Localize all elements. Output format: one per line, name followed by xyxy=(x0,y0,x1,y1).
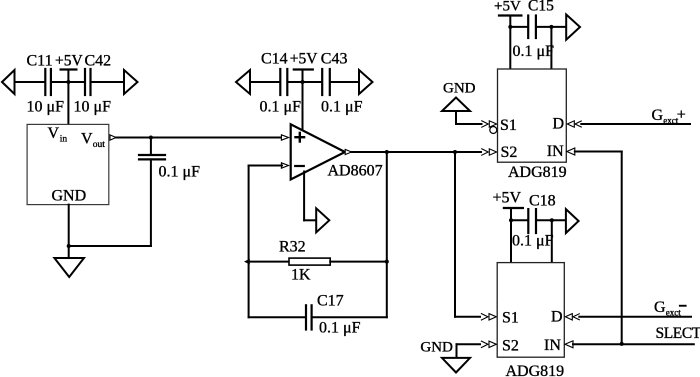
node: +5V mid junction xyxy=(301,80,305,84)
wire xyxy=(15,81,45,83)
connector arrow right of C42 rail xyxy=(124,70,138,94)
wire xyxy=(511,219,527,221)
junction arrow at R32 left xyxy=(244,259,250,265)
svg-text:ADG819: ADG819 xyxy=(508,164,567,181)
wire xyxy=(537,26,566,28)
svg-text:G: G xyxy=(654,299,666,316)
node: R32 right junction xyxy=(385,260,389,264)
svg-text:0.1 μF: 0.1 μF xyxy=(321,99,363,116)
wire xyxy=(510,26,527,28)
svg-text:C43: C43 xyxy=(321,51,348,68)
wire: -input to feedback rail xyxy=(249,165,282,167)
svg-text:out: out xyxy=(93,140,106,150)
svg-text:V: V xyxy=(48,125,60,142)
svg-text:S1: S1 xyxy=(500,117,517,134)
node: Vout junction xyxy=(149,136,153,140)
wire xyxy=(150,161,152,247)
capacitor C11 xyxy=(44,69,46,95)
pin arrow op-amp out xyxy=(345,149,351,154)
svg-text:SLECT: SLECT xyxy=(656,325,700,342)
capacitor C43 xyxy=(321,69,323,95)
wire: Vout to op-amp + input xyxy=(116,137,282,139)
wire xyxy=(150,138,152,154)
svg-text:AD8607: AD8607 xyxy=(328,163,383,180)
pin arrow Vout xyxy=(110,135,116,140)
svg-text:+5V: +5V xyxy=(493,190,522,207)
pin decoration S2 (bottom) xyxy=(481,341,488,347)
regulator block Vin/Vout/GND xyxy=(27,124,109,204)
wire xyxy=(92,81,125,83)
svg-text:C42: C42 xyxy=(85,53,112,70)
wire xyxy=(52,81,84,83)
switch U2 ADG819 (top) xyxy=(498,69,567,162)
svg-text:GND: GND xyxy=(420,339,453,355)
wire: feedback left rail xyxy=(248,166,250,318)
node xyxy=(550,218,554,222)
node: SLECT junction xyxy=(620,342,624,346)
wire: D to Gext- xyxy=(579,316,691,318)
wire: +5V down to Vin xyxy=(67,82,69,124)
connector arrow right of C18 xyxy=(566,209,579,233)
capacitor 0.1uF at Vout xyxy=(139,154,165,156)
wire xyxy=(69,245,151,247)
svg-text:0.1 μF: 0.1 μF xyxy=(159,164,201,181)
pin decoration S2 (top) xyxy=(482,149,489,155)
capacitor C18 xyxy=(527,209,529,233)
wire: op-amp V- pin down xyxy=(303,172,305,221)
wire: block GND down xyxy=(68,205,70,258)
wire: D to Gext+ xyxy=(581,123,690,125)
wire: C17 row right xyxy=(313,316,387,318)
svg-text:GND: GND xyxy=(52,188,87,205)
svg-text:S1: S1 xyxy=(502,309,519,326)
wire xyxy=(537,219,566,221)
pin decoration IN (top) xyxy=(567,148,575,155)
connector arrow right of C15 xyxy=(566,15,580,40)
wire: +5V down to op-amp xyxy=(302,82,304,130)
svg-text:IN: IN xyxy=(547,143,564,160)
connector arrow left of C11 rail xyxy=(2,70,15,94)
wire: op-amp output to S2 xyxy=(352,151,482,153)
+5V supply top right xyxy=(499,14,521,16)
+5V supply mid xyxy=(294,68,313,70)
svg-text:0.1 μF: 0.1 μF xyxy=(513,43,555,60)
node: gnd junction xyxy=(67,244,71,248)
wire: R32 row right xyxy=(330,261,387,263)
wire: feedback right rail xyxy=(386,152,388,317)
op-amp U1 AD8607 xyxy=(291,124,345,179)
switch U3 ADG819 (bottom) xyxy=(497,263,564,358)
ground left xyxy=(54,258,84,277)
node: +5V left junction xyxy=(66,80,70,84)
svg-text:V: V xyxy=(81,131,93,148)
svg-text:D: D xyxy=(551,308,563,325)
svg-text:ADG819: ADG819 xyxy=(506,363,565,377)
wire xyxy=(331,81,359,83)
svg-text:0.1 μF: 0.1 μF xyxy=(512,233,554,250)
+5V supply bottom right xyxy=(504,207,523,209)
pin decoration D (bottom) xyxy=(565,314,572,320)
supply arrow op-amp V- xyxy=(316,208,329,232)
svg-text:C17: C17 xyxy=(317,293,344,310)
svg-text:C11: C11 xyxy=(27,53,53,70)
wire xyxy=(457,343,481,345)
wire: C17 row left xyxy=(249,316,305,318)
svg-text:R32: R32 xyxy=(279,239,306,256)
wire xyxy=(455,111,457,124)
svg-text:exct: exct xyxy=(666,308,681,318)
pin arrow op-amp -in xyxy=(281,163,288,168)
wire: SLECT xyxy=(573,343,694,345)
svg-text:0.1 μF: 0.1 μF xyxy=(319,320,361,337)
wire xyxy=(288,81,321,83)
svg-text:1K: 1K xyxy=(291,267,311,284)
pin decoration S1 (bottom) xyxy=(481,314,488,320)
node: junction to lower S1 xyxy=(453,150,457,154)
svg-text:+5V: +5V xyxy=(494,0,521,15)
svg-text:C14: C14 xyxy=(261,51,288,68)
node: output/feedback junction xyxy=(385,150,389,154)
pin decoration D (top) xyxy=(567,121,574,127)
pin marks at S1 (bottom) xyxy=(497,302,499,304)
connector arrow right of C43 rail xyxy=(359,70,373,94)
pin decoration S1 (top) xyxy=(482,121,489,127)
svg-text:S2: S2 xyxy=(502,338,519,355)
wire: node to lower S1 xyxy=(454,152,456,317)
svg-text:D: D xyxy=(553,115,565,132)
svg-text:GND: GND xyxy=(443,81,476,97)
capacitor C42 xyxy=(84,69,86,95)
capacitor C15 xyxy=(527,16,529,39)
wire: C18 rails down to block xyxy=(510,220,512,262)
svg-text:S2: S2 xyxy=(501,144,518,161)
node xyxy=(509,218,513,222)
+5V supply left xyxy=(61,68,77,70)
node xyxy=(549,25,553,29)
wire: C15 rails down to block xyxy=(509,27,511,69)
svg-text:10 μF: 10 μF xyxy=(27,99,65,116)
svg-text:+5V: +5V xyxy=(290,51,318,68)
pin arrow op-amp +in xyxy=(281,135,288,140)
wire xyxy=(250,81,279,83)
capacitor C17 xyxy=(305,305,307,329)
svg-text:C15: C15 xyxy=(528,0,554,15)
resistor R32 xyxy=(289,258,330,265)
svg-text:in: in xyxy=(60,134,68,144)
svg-text:C18: C18 xyxy=(529,193,556,210)
svg-text:IN: IN xyxy=(544,337,561,354)
svg-text:10 μF: 10 μF xyxy=(74,99,112,116)
wire: IN right and down xyxy=(575,151,622,153)
svg-text:+: + xyxy=(677,107,686,124)
bubble at S1 xyxy=(490,127,497,134)
capacitor C14 xyxy=(279,69,281,95)
wire xyxy=(304,219,316,221)
ground (bottom right) xyxy=(442,358,470,373)
node xyxy=(508,25,512,29)
svg-text:G: G xyxy=(652,107,664,124)
connector arrow left of C14 rail xyxy=(236,70,250,94)
svg-text:0.1 μF: 0.1 μF xyxy=(260,99,302,116)
pin decoration IN (bottom) xyxy=(565,341,573,348)
wire: R32 row left xyxy=(249,261,289,263)
svg-text:+5V: +5V xyxy=(55,53,83,70)
